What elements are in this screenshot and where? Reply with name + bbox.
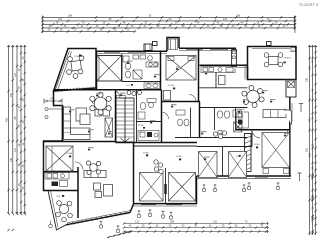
svg-text:SOBA: SOBA [176, 155, 182, 158]
west kitchen counter strip [117, 96, 126, 99]
annex lower wall piece [247, 66, 249, 80]
lower terrace table [56, 201, 73, 222]
bottom wall middle section with windows [134, 203, 198, 205]
central bath south wall [137, 121, 162, 123]
annex table and chairs [264, 53, 283, 67]
tiny room labels [69, 61, 290, 160]
right living wall [236, 129, 291, 131]
svg-text:SPREM.: SPREM. [284, 58, 292, 60]
core west wall [115, 90, 117, 143]
svg-text:TER.: TER. [56, 196, 61, 198]
svg-text:SOBA: SOBA [143, 152, 149, 155]
bathroom top walls [121, 54, 123, 82]
svg-text:KUP.: KUP. [126, 85, 131, 87]
top wall west segment with windows [96, 50, 167, 52]
door arcs [112, 90, 120, 98]
column marker circle [49, 224, 53, 228]
top-middle bedroom bed [166, 56, 196, 81]
central stair [116, 98, 134, 142]
svg-text:252: 252 [306, 147, 309, 152]
right bath block walls [200, 107, 248, 109]
bathroom top fixtures [123, 55, 158, 79]
mid bottom bedroom walls [134, 145, 197, 147]
svg-text:TERASA: TERASA [74, 55, 83, 58]
bay window projection [167, 38, 179, 52]
annex room top-right [248, 47, 297, 80]
right kitchen counter [237, 112, 249, 128]
living wardrobe [105, 118, 113, 137]
svg-text:131: 131 [58, 18, 63, 21]
svg-text:131: 131 [14, 72, 17, 77]
wc walls [190, 108, 192, 138]
svg-text:KUPA.: KUPA. [138, 124, 144, 127]
lower living armchairs [94, 183, 101, 190]
bedroom BR bed [262, 133, 290, 168]
left bedroom wall [44, 141, 116, 143]
svg-text:208: 208 [68, 15, 73, 18]
left outer wall upper [54, 91, 63, 141]
wardrobe strip [245, 134, 252, 172]
dining table west [90, 92, 111, 115]
svg-text:131: 131 [14, 147, 17, 152]
svg-text:WC: WC [139, 132, 143, 134]
kitchen upper-right walls [198, 48, 200, 102]
svg-text:131: 131 [309, 152, 312, 157]
right dimension chain lines with ticks and figures [297, 45, 316, 235]
core south wall [116, 142, 198, 144]
bottom dimension chain lines with ticks and figures [107, 221, 268, 239]
top-middle bedroom south wall [162, 101, 201, 103]
bedroom mid-left bed [199, 152, 218, 178]
central bath fixtures [138, 99, 156, 120]
kitchen upper-right counter [201, 67, 235, 73]
mid bottom bed east [169, 173, 196, 202]
closet column below annex [286, 80, 296, 98]
small dim line at terrace corner [44, 100, 62, 102]
mid bottom bed west [140, 173, 164, 202]
top dimension chain lines with ticks and figures [41, 15, 296, 34]
svg-text:SOBA: SOBA [254, 143, 260, 146]
living stools [92, 99, 96, 103]
right living sofa [263, 110, 286, 118]
corridor double sink top [144, 83, 160, 89]
kitchen lower-left fixtures [45, 173, 69, 187]
terrace table and chairs [67, 56, 84, 79]
decorative circles cluster [154, 160, 163, 174]
svg-text:SOBA: SOBA [168, 84, 175, 87]
step wall mid-bottom [196, 176, 198, 204]
vanity circles [213, 131, 226, 139]
diagonal wall bottom-left [66, 213, 130, 225]
terrace top-left outline [54, 49, 97, 92]
svg-text:208: 208 [236, 15, 241, 18]
left bedroom bed [46, 146, 73, 171]
right apartment mid wall [235, 108, 237, 131]
spiral stools center [127, 91, 142, 96]
svg-text:208: 208 [306, 77, 309, 82]
svg-text:131: 131 [213, 221, 218, 224]
small round table lower-left [86, 161, 100, 175]
svg-text:TLOCRT 3: TLOCRT 3 [299, 2, 319, 7]
terrace edge hatch [56, 87, 94, 92]
corridor sideboard [80, 114, 90, 125]
link wall to annex [236, 64, 248, 66]
svg-text:131: 131 [309, 65, 312, 70]
kitchen lower-left walls [44, 171, 79, 173]
right bath fixtures [217, 110, 242, 132]
stair void crossed rectangle [97, 56, 122, 82]
kitchen mid wall [215, 72, 217, 88]
chimney block [144, 44, 152, 50]
living TV table [76, 108, 87, 121]
lower living table [104, 185, 113, 197]
lower terrace outline [48, 191, 66, 231]
outside wall markers west [45, 108, 48, 111]
corridor cabinet [164, 91, 171, 101]
left dimension chain lines with ticks and figures [6, 45, 26, 231]
wc small fixtures [176, 110, 189, 126]
small vent block above [153, 42, 158, 46]
right outer wall [289, 97, 291, 176]
wall under top terrace / corridor top [54, 89, 162, 91]
left outer wall lower [44, 141, 79, 191]
lower living room sofa [84, 171, 106, 178]
bedroom mid bed [229, 152, 247, 178]
svg-text:465: 465 [6, 117, 9, 122]
left bedroom door arc [75, 162, 83, 170]
bottom wall right section with windows [197, 175, 292, 177]
living room west wall thick [62, 106, 64, 142]
dining table right [242, 86, 264, 108]
svg-text:208: 208 [10, 157, 13, 162]
top wall east segment with windows [179, 47, 236, 49]
flue stack [232, 50, 237, 67]
svg-text:SOBA: SOBA [66, 152, 73, 155]
svg-text:252: 252 [10, 92, 13, 97]
center kitchen fixtures [138, 131, 159, 141]
svg-text:131: 131 [135, 221, 140, 224]
fridge [219, 76, 226, 85]
survey markers [99, 182, 279, 233]
living L-sofa [64, 107, 71, 133]
partition walls bottom right [222, 147, 224, 177]
core east wall [136, 90, 138, 143]
svg-text:208: 208 [170, 221, 175, 224]
svg-text:131: 131 [223, 18, 228, 21]
